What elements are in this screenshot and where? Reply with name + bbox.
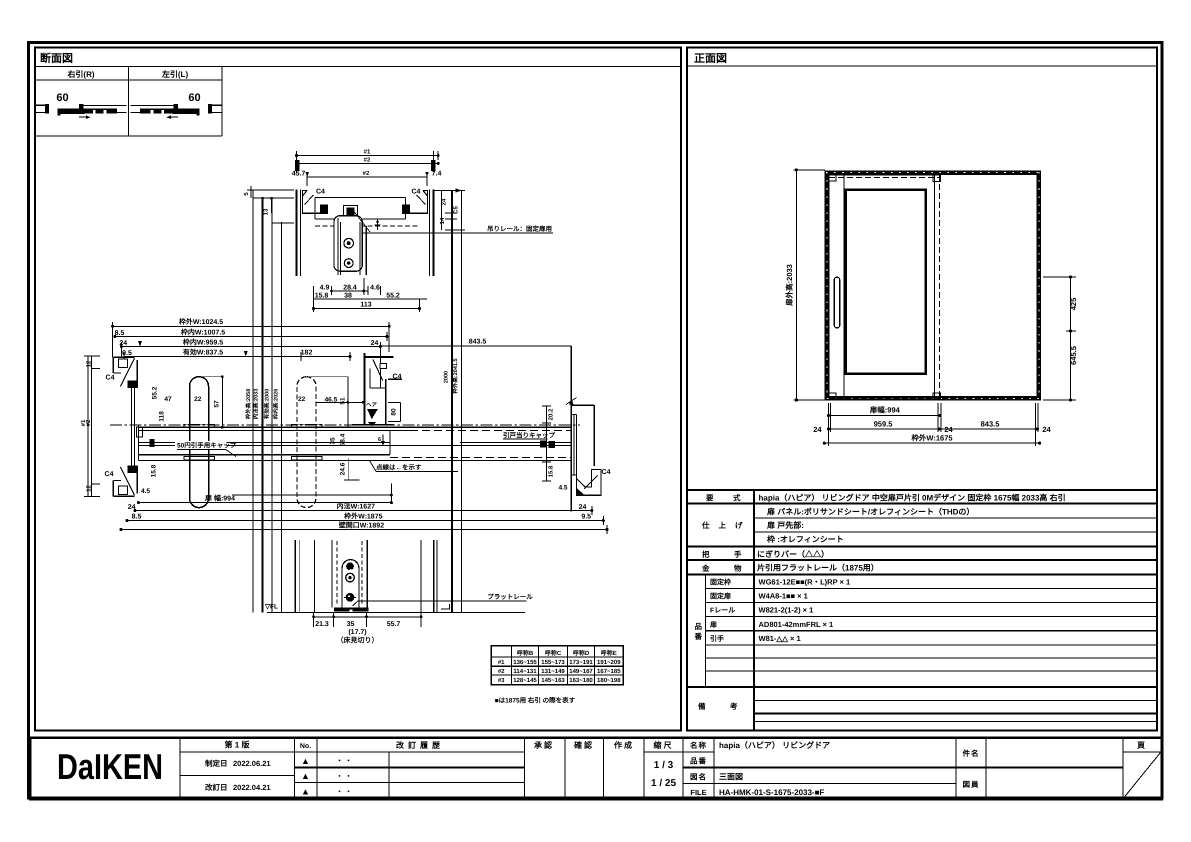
svg-text:W81-△△ × 1: W81-△△ × 1 [759, 634, 801, 643]
svg-text:品: 品 [695, 622, 703, 631]
svg-text:品番: 品番 [690, 757, 707, 766]
svg-text:C4: C4 [105, 471, 114, 478]
section cut line E [451, 191, 453, 613]
right panel frame [687, 48, 1157, 731]
svg-text:有効高:2000: 有効高:2000 [264, 389, 271, 420]
svg-text:制定日: 制定日 [205, 759, 228, 768]
svg-text:#2: #2 [363, 170, 370, 177]
svg-text:Fレール: Fレール [710, 607, 735, 615]
svg-text:扉幅:994: 扉幅:994 [870, 406, 901, 415]
svg-text:118: 118 [159, 411, 166, 422]
pocket dashed line [939, 175, 941, 399]
svg-text:180~198: 180~198 [597, 677, 621, 684]
svg-text:4.9: 4.9 [320, 285, 330, 292]
bottom dims [314, 613, 422, 627]
svg-text:163~180: 163~180 [569, 677, 593, 684]
svg-text:壁開口W:1892: 壁開口W:1892 [339, 521, 384, 530]
svg-text:51: 51 [340, 397, 347, 405]
svg-text:8.5: 8.5 [115, 330, 125, 337]
svg-text:W4A8-1■■ × 1: W4A8-1■■ × 1 [759, 592, 808, 601]
svg-text:12: 12 [86, 360, 93, 367]
svg-text:1 / 25: 1 / 25 [651, 778, 676, 789]
svg-text:38: 38 [344, 293, 352, 300]
door leaf verticals [337, 218, 339, 275]
svg-text:ヘア: ヘア [366, 402, 378, 409]
section view title 断面図 [35, 52, 681, 66]
svg-text:内法高:2033: 内法高:2033 [253, 389, 260, 420]
column lines [179, 738, 181, 800]
cell diagram right-sliding [35, 92, 127, 119]
svg-text:#3: #3 [498, 677, 505, 684]
pocket mouth profile [352, 353, 402, 425]
svg-text:2022.04.21: 2022.04.21 [233, 783, 271, 792]
page diagonal [1124, 753, 1161, 798]
leaf right stile line [925, 175, 927, 399]
svg-text:（床見切り）: （床見切り） [337, 636, 379, 645]
svg-text:改訂日: 改訂日 [205, 783, 228, 792]
svg-text:枠内高:2026: 枠内高:2026 [272, 389, 279, 420]
svg-text:考: 考 [730, 702, 738, 711]
svg-text:正面図: 正面図 [694, 53, 727, 65]
svg-text:114~131: 114~131 [513, 668, 537, 675]
svg-text:#2: #2 [364, 157, 371, 164]
left height dimension 扉外高:2033 [793, 170, 824, 400]
svg-text:12: 12 [86, 485, 93, 492]
svg-text:扉 パネル:ポリサンドシート/オレフィンシート（THDの）: 扉 パネル:ポリサンドシート/オレフィンシート（THDの） [767, 507, 974, 517]
svg-text:60: 60 [56, 92, 68, 104]
svg-text:第 1 版: 第 1 版 [225, 741, 251, 750]
20.2 / 15.8 dims [546, 406, 548, 481]
front elevation drawing [785, 168, 1078, 446]
svg-text:#1: #1 [498, 659, 505, 666]
svg-text:167~185: 167~185 [597, 668, 621, 675]
svg-text:枠内W:959.5: 枠内W:959.5 [182, 338, 223, 347]
svg-text:24: 24 [813, 425, 822, 434]
size range table [491, 646, 623, 705]
grip bar pill dashed [297, 377, 316, 508]
svg-text:有効W:837.5: 有効W:837.5 [183, 348, 223, 357]
svg-text:▲: ▲ [301, 756, 310, 766]
svg-text:60: 60 [188, 92, 200, 104]
svg-text:15.8: 15.8 [315, 293, 329, 300]
svg-text:▲: ▲ [301, 771, 310, 781]
svg-text:45.7: 45.7 [292, 171, 306, 178]
right dimensions 425 / 645.5 [1043, 277, 1076, 400]
svg-text:55.7: 55.7 [387, 621, 401, 628]
svg-text:136~155: 136~155 [513, 659, 537, 666]
svg-text:右引(R): 右引(R) [66, 70, 94, 79]
svg-text:13: 13 [263, 208, 270, 215]
svg-text:191~209: 191~209 [597, 659, 621, 666]
svg-text:枠外W:1024.5: 枠外W:1024.5 [178, 317, 223, 326]
svg-text:番: 番 [694, 632, 703, 641]
dim W1007.5 [115, 336, 387, 338]
svg-text:図名: 図名 [690, 773, 707, 782]
svg-text:15.8: 15.8 [151, 464, 158, 477]
bottom dimension 扉幅:994 [824, 403, 1039, 446]
section cut line B [261, 198, 263, 612]
floor guide bracket [342, 560, 359, 610]
head jamb section drawing [243, 149, 553, 313]
svg-text:扉 戸先部:: 扉 戸先部: [767, 521, 804, 530]
svg-text:35: 35 [329, 437, 336, 445]
svg-text:三面図: 三面図 [719, 773, 743, 782]
drawing title block [30, 738, 1162, 800]
svg-text:57: 57 [214, 400, 221, 408]
svg-text:改訂履歴: 改訂履歴 [396, 741, 444, 750]
second row lines [295, 767, 525, 769]
head frame right profile [403, 191, 428, 214]
cap callout [175, 441, 227, 449]
section cut line F [460, 191, 462, 613]
svg-text:C5: C5 [453, 206, 460, 214]
svg-text:要: 要 [706, 494, 714, 503]
svg-text:#2: #2 [85, 419, 92, 426]
svg-text:hapia（ハピア） リビングドア 中空扉戸片引 0M: hapia（ハピア） リビングドア 中空扉戸片引 0Mデザイン 固定枠 1675… [759, 493, 1066, 503]
svg-text:固定扉: 固定扉 [710, 592, 731, 601]
svg-text:2022.06.21: 2022.06.21 [233, 759, 271, 768]
svg-text:吊りレール：固定扉用: 吊りレール：固定扉用 [487, 225, 552, 233]
frame white dashes [826, 172, 1040, 399]
svg-text:金: 金 [701, 564, 710, 573]
left vertical frame height dims [84, 356, 100, 496]
svg-text:2000: 2000 [444, 371, 450, 383]
latch jamb profile right [571, 405, 601, 495]
floor line [267, 611, 525, 613]
svg-text:#1: #1 [364, 149, 371, 156]
svg-text:呼称E: 呼称E [601, 649, 617, 657]
svg-text:24: 24 [579, 504, 587, 511]
svg-text:24: 24 [441, 198, 448, 205]
svg-text:hapia（ハピア） リビングドア: hapia（ハピア） リビングドア [719, 740, 830, 750]
leaf left stile line [843, 175, 845, 399]
svg-text:C4: C4 [412, 189, 421, 196]
svg-text:左引(L): 左引(L) [161, 70, 189, 79]
svg-text:(17.7): (17.7) [348, 628, 366, 636]
diagonal leader from bolt [352, 209, 370, 232]
svg-text:22: 22 [298, 396, 306, 403]
svg-text:片引用フラットレール（1875用）: 片引用フラットレール（1875用） [757, 563, 879, 573]
svg-text:0.5: 0.5 [122, 350, 132, 357]
svg-text:24: 24 [128, 504, 136, 511]
svg-text:にぎりバー（△△）: にぎりバー（△△） [757, 549, 829, 559]
dim line W1 [297, 151, 439, 186]
rail band [110, 425, 580, 461]
bottom width dims of plan [121, 484, 607, 535]
section cut line D [281, 222, 283, 612]
svg-text:作成: 作成 [614, 741, 634, 750]
svg-text:15.8: 15.8 [548, 465, 555, 477]
svg-text:9.5: 9.5 [581, 514, 591, 521]
mini table of sliding directions [35, 66, 222, 136]
svg-text:C4: C4 [106, 374, 115, 381]
svg-text:WG61-12E■■(R・L)RP × 1: WG61-12E■■(R・L)RP × 1 [759, 578, 851, 587]
header row line [180, 751, 525, 753]
svg-text:80: 80 [391, 408, 398, 416]
svg-text:上: 上 [719, 521, 727, 530]
door frame outer (black band) [827, 173, 1039, 399]
svg-text:扉: 扉 [709, 620, 717, 629]
cap callout right [502, 432, 548, 440]
svg-text:断面図: 断面図 [40, 52, 73, 65]
section cut line C [271, 198, 273, 612]
svg-text:959.5: 959.5 [874, 420, 893, 429]
svg-text:■は1875用 右引 の際を表す: ■は1875用 右引 の際を表す [495, 697, 576, 705]
svg-text:げ: げ [735, 521, 743, 530]
left panel frame [35, 48, 681, 731]
svg-text:件名: 件名 [963, 749, 980, 758]
dim W837.5 + 182 [124, 356, 350, 358]
leaf end mini dim 6 [382, 435, 384, 447]
svg-text:645.5: 645.5 [1069, 346, 1078, 365]
svg-text:C4: C4 [316, 189, 325, 196]
svg-text:枠内W:1007.5: 枠内W:1007.5 [180, 328, 225, 337]
svg-text:内法W:1627: 内法W:1627 [337, 502, 375, 511]
svg-text:プラットレール: プラットレール [487, 593, 533, 601]
grip bar pill solid [190, 377, 209, 508]
corner blocks [829, 175, 836, 181]
top width dim W1024.5 [113, 322, 390, 389]
svg-text:4.6: 4.6 [370, 285, 380, 292]
svg-text:引手: 引手 [710, 634, 724, 643]
svg-text:備: 備 [698, 702, 706, 711]
svg-text:DaIKEN: DaIKEN [57, 746, 163, 787]
svg-text:4.5: 4.5 [558, 485, 567, 492]
svg-text:固定枠: 固定枠 [710, 578, 731, 587]
svg-text:確認: 確認 [574, 741, 594, 750]
svg-text:C4: C4 [393, 374, 402, 381]
svg-text:点線は←を示す: 点線は←を示す [376, 464, 422, 472]
svg-text:8.5: 8.5 [132, 514, 142, 521]
svg-text:式: 式 [733, 494, 741, 503]
svg-text:枠 :オレフィンシート: 枠 :オレフィンシート [767, 535, 844, 544]
svg-text:図員: 図員 [963, 780, 980, 789]
svg-text:AD801-42mmFRL × 1: AD801-42mmFRL × 1 [759, 620, 834, 629]
cell diagram left-sliding [131, 92, 223, 119]
svg-text:22: 22 [194, 396, 202, 403]
svg-text:149~167: 149~167 [569, 668, 593, 675]
svg-text:1 / 3: 1 / 3 [654, 760, 674, 771]
svg-text:名称: 名称 [690, 741, 707, 750]
top dashed line [829, 177, 939, 179]
svg-text:6: 6 [378, 437, 381, 443]
svg-text:#2: #2 [498, 668, 505, 675]
svg-text:縮尺: 縮尺 [654, 741, 674, 750]
svg-text:FILE: FILE [690, 788, 706, 797]
svg-text:枠外W:1675: 枠外W:1675 [911, 434, 952, 443]
svg-text:・ ・: ・ ・ [336, 789, 352, 796]
svg-text:24: 24 [371, 340, 379, 347]
svg-text:仕: 仕 [701, 521, 710, 530]
svg-text:55.2: 55.2 [152, 386, 159, 399]
right extra dims [434, 191, 465, 230]
specification table [687, 490, 1157, 731]
svg-text:24.6: 24.6 [340, 462, 347, 475]
svg-text:113: 113 [360, 302, 371, 309]
svg-text:55.2: 55.2 [386, 293, 400, 300]
svg-text:182: 182 [301, 350, 313, 357]
svg-text:扉 幅:994: 扉 幅:994 [204, 494, 235, 503]
svg-text:物: 物 [734, 564, 742, 573]
svg-text:▽FL: ▽FL [264, 604, 278, 611]
right vertical boundary line with arrow [570, 346, 572, 512]
svg-text:24: 24 [119, 340, 127, 347]
svg-text:35: 35 [347, 621, 355, 628]
wall / jamb verticals [295, 540, 437, 612]
small stop dim [375, 224, 381, 226]
left wall stud lines [296, 151, 298, 172]
section cut line A [252, 190, 254, 612]
svg-text:HA-HMK-01-S-1675-2033-■F: HA-HMK-01-S-1675-2033-■F [719, 788, 824, 797]
hanger bolt [344, 206, 358, 222]
svg-text:47: 47 [164, 396, 172, 403]
threshold bar [334, 607, 369, 611]
svg-text:145~163: 145~163 [541, 677, 565, 684]
svg-text:20.2: 20.2 [548, 408, 555, 420]
843.5 dim [380, 345, 571, 347]
svg-text:C4: C4 [602, 469, 611, 476]
door top dashed line [315, 225, 420, 227]
svg-text:14: 14 [439, 217, 446, 224]
svg-text:把: 把 [702, 550, 710, 559]
svg-text:W821-2(1-2) × 1: W821-2(1-2) × 1 [759, 606, 814, 615]
svg-text:呼称D: 呼称D [573, 649, 590, 657]
svg-text:▲: ▲ [301, 787, 310, 797]
svg-text:128~145: 128~145 [513, 677, 537, 684]
svg-text:扉外高:2033: 扉外高:2033 [785, 264, 794, 306]
head jamb underside [315, 197, 406, 199]
svg-text:28.4: 28.4 [343, 285, 357, 292]
head frame left profile [303, 191, 328, 214]
door leaf outline [829, 175, 935, 399]
handle bar [834, 277, 839, 328]
dim W959.5 [121, 346, 380, 348]
svg-text:No.: No. [300, 743, 311, 750]
svg-text:・ ・: ・ ・ [336, 774, 352, 781]
sill section drawing [264, 188, 533, 644]
svg-text:・ ・: ・ ・ [336, 758, 352, 765]
svg-text:24: 24 [1042, 425, 1051, 434]
svg-text:枠外W:1875: 枠外W:1875 [343, 512, 382, 521]
svg-text:呼称B: 呼称B [517, 649, 534, 657]
hanger roller bracket plate [334, 216, 362, 272]
svg-text:173~191: 173~191 [569, 659, 593, 666]
right wall stud lines [433, 151, 435, 172]
bottom dims of head section [314, 278, 427, 312]
svg-text:手: 手 [734, 550, 742, 559]
rail line to callout 吊りレール [362, 232, 553, 234]
plan section drawing [80, 190, 611, 612]
svg-text:131~149: 131~149 [541, 668, 565, 675]
left jamb frame profile [113, 357, 137, 496]
inner door panel [846, 190, 926, 374]
left small dims [247, 186, 294, 213]
svg-text:承認: 承認 [534, 741, 554, 750]
svg-text:4.5: 4.5 [141, 488, 150, 495]
svg-text:呼称C: 呼称C [545, 649, 562, 657]
svg-text:155~173: 155~173 [541, 659, 565, 666]
svg-text:843.5: 843.5 [981, 420, 1000, 429]
svg-text:21.3: 21.3 [315, 621, 329, 628]
svg-text:58.4: 58.4 [340, 433, 347, 446]
svg-text:頁: 頁 [1137, 741, 1145, 750]
svg-text:枠外高:2058: 枠外高:2058 [245, 389, 252, 420]
svg-text:843.5: 843.5 [469, 339, 487, 346]
svg-text:425: 425 [1069, 298, 1078, 311]
svg-text:50円引手用キャップ: 50円引手用キャップ [177, 442, 237, 450]
